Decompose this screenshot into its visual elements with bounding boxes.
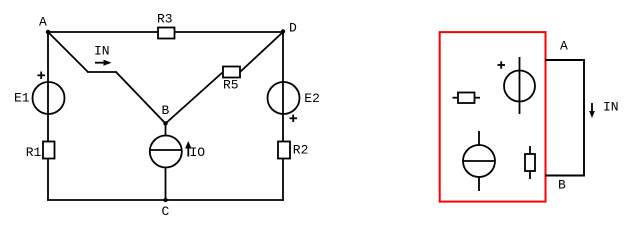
black box (red outline) [440, 32, 546, 202]
svg-text:A: A [39, 15, 47, 30]
svg-text:IN: IN [94, 44, 110, 59]
svg-text:E2: E2 [304, 91, 320, 106]
plus sign E1 [38, 72, 46, 80]
node D [281, 21, 297, 36]
wire right column D down to bottom [282, 32, 284, 200]
current source I0 [150, 136, 182, 168]
node A [39, 15, 50, 35]
wire IN jog horizontal [87, 71, 117, 73]
resistor R5 [223, 67, 240, 93]
voltage source E2 [268, 82, 320, 114]
svg-text:B: B [558, 177, 566, 192]
wire R5 to node B [166, 72, 224, 124]
svg-text:A: A [560, 39, 568, 54]
svg-text:R1: R1 [26, 145, 42, 160]
wire top rail A to D [48, 31, 283, 33]
wire left column A down to bottom [47, 32, 49, 200]
wire IN jog to node B [116, 72, 166, 124]
wire node B to I0 [165, 124, 167, 137]
resistor inside box (vertical) [525, 146, 535, 179]
wire A to IN jog [48, 32, 88, 72]
svg-text:D: D [289, 21, 297, 36]
arrow I0 [185, 141, 205, 160]
arrow IN (terminal) [589, 100, 618, 118]
arrow IN (left circuit) [94, 44, 112, 66]
svg-text:C: C [162, 204, 170, 219]
node B [162, 103, 170, 126]
svg-text:IN: IN [603, 100, 619, 115]
resistor R3 [157, 12, 175, 39]
plus sign E2 [290, 115, 298, 122]
svg-text:IO: IO [190, 145, 206, 160]
wire bottom rail [47, 199, 284, 201]
plus sign inside box [498, 61, 506, 69]
svg-text:R5: R5 [223, 78, 239, 93]
node C [162, 198, 170, 219]
voltage source inside box [504, 57, 535, 114]
wire terminal bracket A-B [545, 60, 584, 176]
resistor R1 [26, 142, 55, 161]
svg-text:R3: R3 [157, 12, 173, 27]
svg-text:E1: E1 [14, 91, 30, 106]
voltage source E1 [14, 82, 65, 114]
svg-text:R2: R2 [293, 143, 309, 158]
wire D to R5 [240, 32, 283, 72]
svg-text:B: B [162, 103, 170, 118]
wire I0 to bottom rail [165, 167, 167, 200]
resistor inside box (horizontal) [453, 93, 481, 104]
current source inside box [463, 131, 495, 191]
resistor R2 [278, 142, 308, 159]
